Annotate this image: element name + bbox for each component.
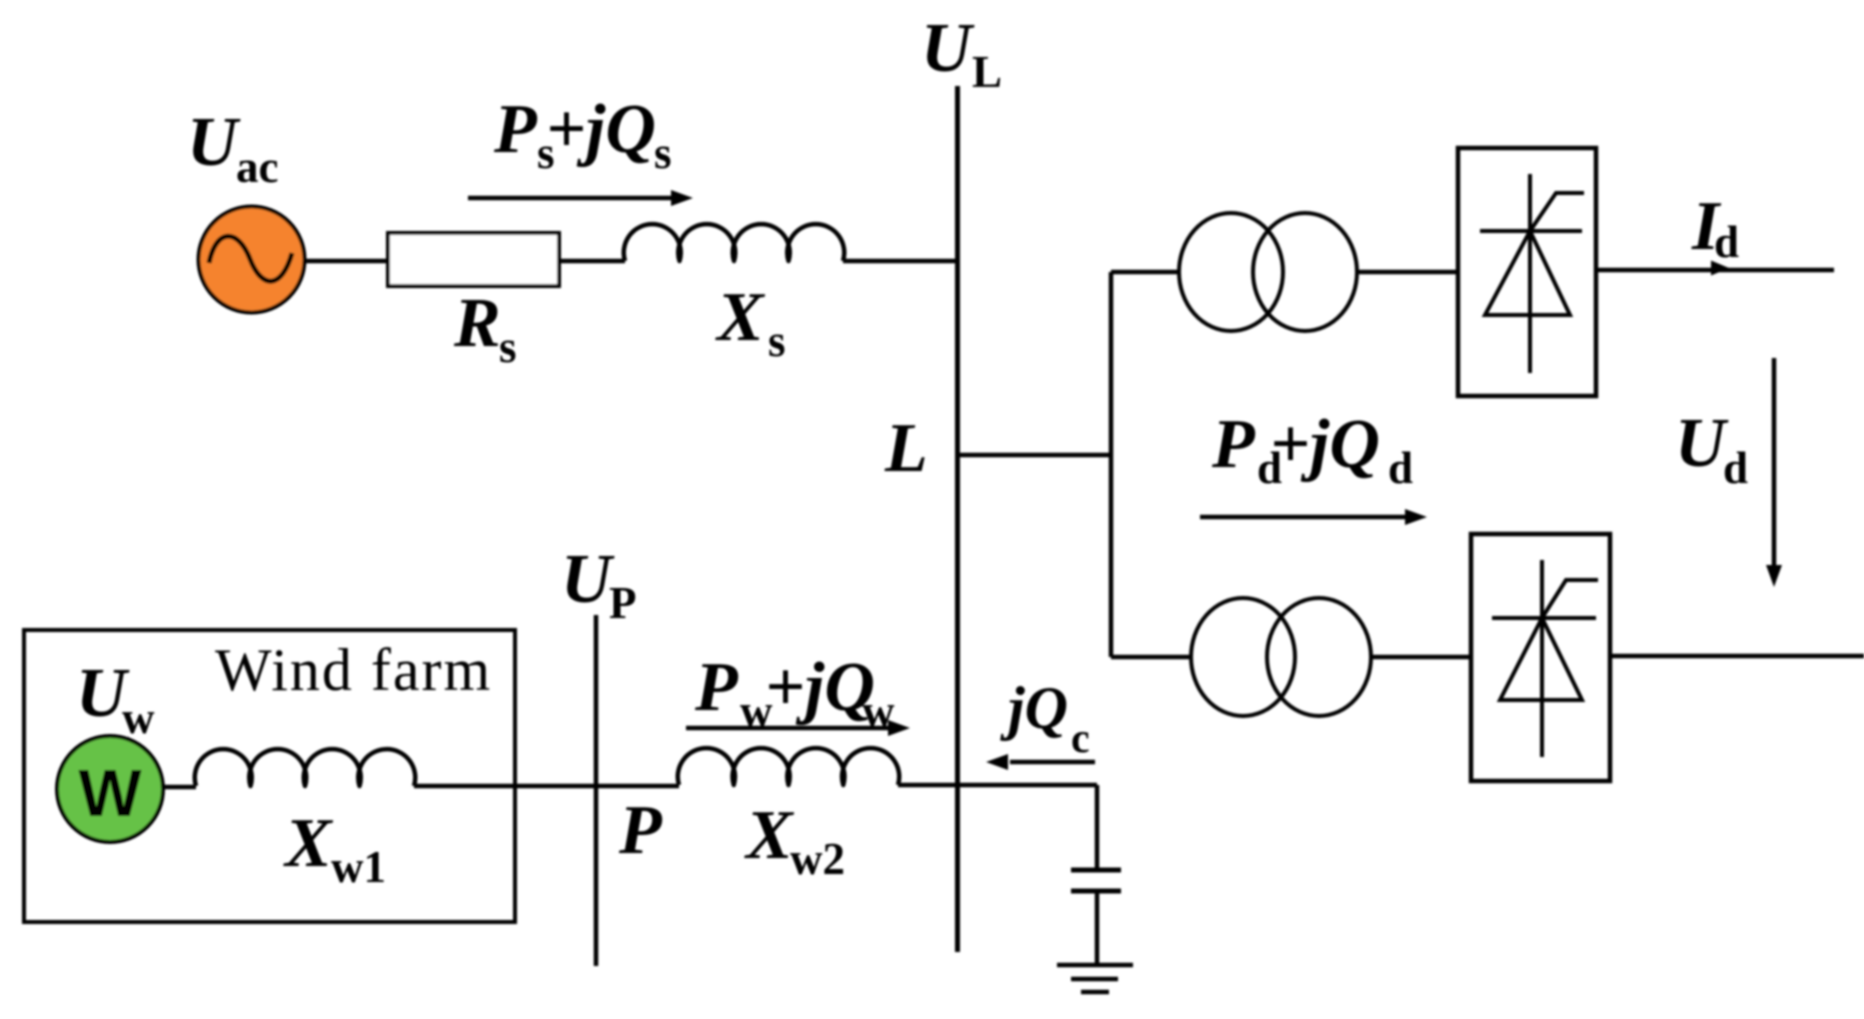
svg-text:R: R xyxy=(453,285,501,362)
svg-text:+jQ: +jQ xyxy=(1270,406,1380,483)
svg-text:ac: ac xyxy=(236,142,278,192)
svg-text:w: w xyxy=(862,686,895,736)
svg-text:w2: w2 xyxy=(790,834,845,884)
svg-text:d: d xyxy=(1388,443,1413,493)
svg-text:U: U xyxy=(187,104,241,181)
svg-text:P: P xyxy=(618,792,663,869)
svg-text:d: d xyxy=(1723,443,1748,493)
svg-text:L: L xyxy=(884,410,928,487)
svg-text:U: U xyxy=(921,10,975,87)
svg-text:X: X xyxy=(283,805,334,882)
svg-text:w: w xyxy=(122,693,155,743)
svg-text:c: c xyxy=(1071,716,1090,762)
svg-text:U: U xyxy=(1675,405,1729,482)
svg-text:+jQ: +jQ xyxy=(546,91,656,168)
svg-text:+jQ: +jQ xyxy=(765,649,875,726)
svg-text:s: s xyxy=(768,316,786,366)
svg-text:X: X xyxy=(715,279,766,356)
svg-text:U: U xyxy=(561,541,615,618)
svg-text:jQ: jQ xyxy=(1000,675,1068,741)
svg-text:s: s xyxy=(654,128,672,178)
svg-text:d: d xyxy=(1714,217,1739,267)
svg-text:P: P xyxy=(609,578,637,628)
svg-text:s: s xyxy=(499,322,517,372)
svg-text:L: L xyxy=(972,47,1002,97)
svg-text:X: X xyxy=(744,797,795,874)
svg-text:P: P xyxy=(694,649,739,726)
svg-text:P: P xyxy=(493,91,538,168)
svg-text:W: W xyxy=(78,756,142,831)
svg-text:P: P xyxy=(1211,406,1256,483)
svg-text:Wind farm: Wind farm xyxy=(215,637,492,703)
svg-text:w1: w1 xyxy=(331,842,386,892)
